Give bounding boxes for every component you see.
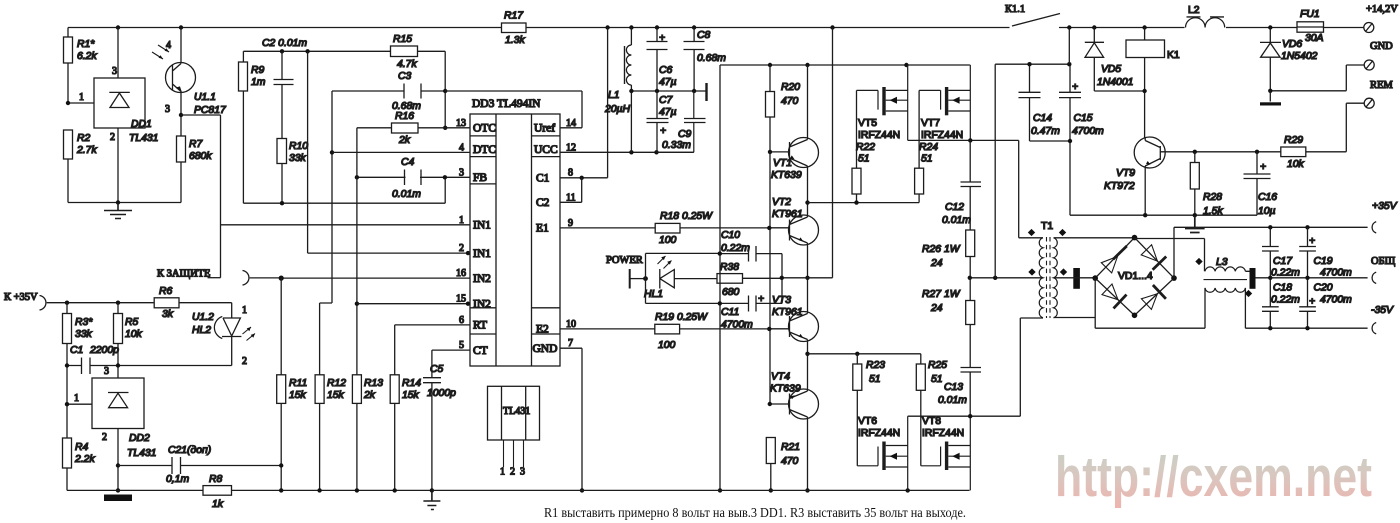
wire C1-out pin8 (560, 28, 608, 178)
svg-text:C10: C10 (721, 230, 740, 241)
terminal GND (1364, 60, 1374, 70)
svg-text:1N4001: 1N4001 (1097, 77, 1133, 88)
svg-text:E1: E1 (536, 223, 549, 235)
capacitor C16 (1244, 152, 1271, 215)
wire R16-C4 left vertical to IN2- and R13 (356, 128, 358, 375)
wire output node2 (808, 354, 921, 364)
IC TL431 package outline box (488, 386, 540, 440)
svg-text:U1.1: U1.1 (194, 92, 216, 103)
wire L3 top out to common rail (1245, 271, 1367, 278)
svg-text:C14: C14 (1033, 113, 1052, 124)
svg-text:C1: C1 (70, 345, 83, 356)
svg-text:L1: L1 (608, 90, 620, 101)
svg-text:+: + (1309, 297, 1315, 308)
svg-text:6.2k: 6.2k (77, 51, 97, 62)
svg-text:15k: 15k (327, 390, 345, 401)
svg-text:IN2: IN2 (473, 298, 491, 310)
svg-text:FU1: FU1 (1300, 9, 1320, 20)
svg-text:100: 100 (659, 235, 677, 246)
wire IN2+ pin16 (281, 277, 470, 279)
svg-text:R1 выставить примерно 8 вольт: R1 выставить примерно 8 вольт на выв.3 D… (544, 505, 966, 520)
svg-text:VT6: VT6 (858, 416, 877, 427)
svg-text:15k: 15k (402, 390, 420, 401)
svg-text:3: 3 (520, 467, 525, 478)
svg-text:+: + (660, 126, 666, 137)
capacitor C14 (1019, 64, 1071, 141)
svg-text:+: + (1309, 236, 1315, 247)
wire IN2- pin15 (357, 303, 470, 305)
svg-text:К1.1: К1.1 (1005, 4, 1025, 15)
diode VD5 1N4001 (1085, 28, 1145, 92)
svg-text:14: 14 (566, 118, 576, 129)
svg-text:10k: 10k (125, 329, 143, 340)
resistor R9 (242, 51, 244, 203)
wire Uref route (445, 91, 582, 128)
svg-text:R6: R6 (159, 286, 173, 297)
svg-text:C6: C6 (659, 65, 673, 76)
ground symbol R28 (1185, 215, 1205, 232)
svg-text:IRFZ44N: IRFZ44N (921, 130, 963, 141)
svg-text:R7: R7 (189, 139, 204, 150)
svg-text:UCC: UCC (534, 144, 558, 156)
svg-text:3: 3 (112, 66, 117, 77)
capacitor C2 (274, 51, 294, 138)
ground bar VD6 (1269, 91, 1271, 102)
svg-text:VT2: VT2 (772, 197, 791, 208)
svg-text:4700m: 4700m (1320, 268, 1352, 279)
wire DD2 pin1 (67, 403, 92, 405)
svg-text:DD1: DD1 (131, 119, 152, 130)
svg-text:VT3: VT3 (772, 295, 791, 306)
svg-text:10µ: 10µ (1258, 206, 1276, 217)
svg-text:E2: E2 (536, 324, 549, 336)
svg-text:C8: C8 (697, 30, 711, 41)
MOSFET VT8 IRFZ44N (921, 447, 941, 466)
svg-text:R12: R12 (327, 378, 346, 389)
resistor R12 (319, 403, 321, 490)
capacitor C12 (961, 140, 982, 230)
resistor R26 (966, 230, 975, 257)
svg-text:2: 2 (510, 467, 515, 478)
resistor R27 (969, 278, 971, 301)
svg-text:DD2: DD2 (129, 433, 150, 444)
svg-text:C19: C19 (1314, 256, 1333, 267)
svg-text:4700m: 4700m (1072, 126, 1104, 137)
svg-text:1: 1 (242, 305, 247, 316)
MOSFET VT7 IRFZ44N (919, 90, 941, 109)
svg-text:C18: C18 (1273, 283, 1292, 294)
svg-text:3: 3 (165, 104, 170, 115)
relay K1 (1126, 40, 1165, 58)
svg-text:GND: GND (533, 343, 558, 355)
wire bridge left to minus rail A (1095, 278, 1205, 328)
capacitor C6 (647, 28, 668, 92)
wire R9-R10 bottom rail to FB (243, 177, 445, 203)
svg-text:TL431: TL431 (503, 406, 530, 417)
svg-text:0,1m: 0,1m (166, 474, 189, 485)
svg-text:R4: R4 (75, 442, 89, 453)
svg-text:1k: 1k (212, 499, 224, 510)
svg-text:0.33m: 0.33m (662, 140, 691, 151)
svg-text:2: 2 (242, 356, 247, 367)
svg-text:24: 24 (930, 303, 943, 314)
LED arrows HL2 (243, 327, 256, 341)
svg-text:C21(доп): C21(доп) (168, 445, 211, 456)
resistor R21 (766, 438, 775, 464)
wire +35V rail (1174, 227, 1368, 278)
wire top rail mid (R17 to K1.1) (526, 27, 1010, 29)
svg-text:C1: C1 (536, 172, 550, 184)
svg-text:VT9: VT9 (1116, 168, 1135, 179)
LED U1.2 HL2 (222, 303, 241, 366)
svg-text:0.68m: 0.68m (697, 53, 726, 64)
resistor R22 (856, 90, 858, 168)
terminal +14,2V (1364, 23, 1374, 33)
capacitor C9 (657, 91, 706, 152)
resistor R18 + wire E1 pin9 (560, 227, 655, 229)
svg-text:R28: R28 (1203, 192, 1222, 203)
svg-text:R25: R25 (928, 360, 947, 371)
svg-text:C16: C16 (1258, 192, 1277, 203)
svg-text:DTC: DTC (473, 144, 496, 156)
svg-text:16: 16 (456, 268, 466, 279)
svg-text:R24: R24 (919, 142, 938, 153)
svg-text:Uref: Uref (534, 123, 555, 135)
svg-text:К ЗАЩИТЕ: К ЗАЩИТЕ (157, 269, 210, 280)
diode bridge VD1...4 (1095, 238, 1174, 316)
wire C3-left vertical to DTC and R12 (320, 91, 332, 375)
svg-text:R5: R5 (125, 317, 139, 328)
resistor R6 (154, 298, 179, 308)
capacitor C10 (720, 246, 782, 278)
svg-text:+: + (758, 294, 764, 305)
svg-text:К +35V: К +35V (4, 292, 38, 303)
svg-text:1.5k: 1.5k (1203, 206, 1223, 217)
svg-text:R2: R2 (77, 133, 91, 144)
resistor R11 (280, 278, 282, 490)
resistor R28 (1194, 152, 1196, 163)
photo arrows U1.1 (152, 45, 169, 59)
svg-text:20µH: 20µH (604, 104, 631, 115)
svg-text:0.22m: 0.22m (1271, 268, 1300, 279)
svg-text:TL431: TL431 (129, 133, 158, 144)
svg-text:C15: C15 (1074, 113, 1093, 124)
resistor R5 (117, 303, 119, 378)
wire +supply to center tap (995, 64, 1069, 278)
svg-text:FB: FB (473, 172, 487, 184)
svg-text:C12: C12 (945, 202, 964, 213)
svg-text:15: 15 (456, 294, 466, 305)
svg-text:R18 0.25W: R18 0.25W (660, 211, 713, 222)
svg-text:33k: 33k (75, 329, 93, 340)
wire DD1 ground rail (68, 202, 181, 204)
capacitor C15 (1059, 64, 1257, 215)
wire U1.1 pin3 to IN1 route (181, 115, 221, 278)
wire FB pin3 (357, 176, 470, 178)
svg-text:R14: R14 (402, 378, 421, 389)
svg-text:-35V: -35V (1371, 305, 1394, 316)
svg-text:KT972: KT972 (1104, 181, 1135, 192)
svg-text:KT639: KT639 (771, 170, 802, 181)
svg-text:1000p: 1000p (427, 388, 456, 399)
svg-text:KT961: KT961 (772, 209, 803, 220)
resistor R10 (277, 139, 287, 164)
resistor R16 (357, 127, 392, 129)
svg-text:680: 680 (722, 287, 740, 298)
svg-text:+: + (659, 33, 665, 44)
svg-text:47µ: 47µ (659, 77, 677, 88)
svg-text:5: 5 (459, 340, 464, 351)
svg-text:R13: R13 (364, 378, 383, 389)
svg-text:KT639: KT639 (770, 384, 801, 395)
MOSFET VT5 IRFZ44N (857, 90, 879, 109)
svg-text:2: 2 (110, 132, 115, 143)
svg-text:POWER: POWER (606, 255, 643, 266)
svg-text:R3*: R3* (75, 317, 93, 328)
ground bar DD2 (104, 495, 132, 502)
svg-text:C5: C5 (430, 364, 444, 375)
wire MOSFET drain rail bottom (908, 318, 1043, 416)
svg-text:R8: R8 (209, 474, 223, 485)
svg-text:4700m: 4700m (1320, 295, 1352, 306)
phase dots L3 (1195, 258, 1252, 297)
wire bridge top to L3 (1135, 239, 1205, 272)
svg-text:C2: C2 (536, 197, 550, 209)
capacitor C4 (405, 170, 422, 186)
svg-text:TL431: TL431 (127, 448, 156, 459)
svg-text:2200p: 2200p (89, 345, 119, 356)
svg-text:1: 1 (74, 393, 79, 404)
svg-text:4: 4 (459, 142, 464, 153)
svg-text:U1.2: U1.2 (192, 312, 214, 323)
svg-text:IN1: IN1 (473, 248, 491, 260)
svg-text:HL2: HL2 (192, 325, 211, 336)
capacitor C11 (720, 278, 782, 312)
transistor VT9 KT972 (1134, 137, 1165, 168)
wire upper ground rail (720, 64, 969, 66)
IC DD1 TL431 box (94, 78, 145, 128)
svg-text:8: 8 (568, 168, 573, 179)
svg-text:OTC: OTC (473, 123, 496, 135)
svg-text:0.01m: 0.01m (938, 395, 967, 406)
node R1-R2 junction pin1 wire (68, 102, 94, 104)
wire top rail left (U1.1 collector to R17) (68, 27, 502, 29)
svg-text:VT4: VT4 (771, 372, 790, 383)
svg-text:R10: R10 (289, 141, 308, 152)
transistor VT1 KT639 (789, 138, 819, 168)
resistor R3* (66, 303, 68, 438)
svg-text:51: 51 (858, 154, 870, 165)
diode VD6 1N5402 (1260, 28, 1281, 91)
svg-text:2.7k: 2.7k (76, 145, 97, 156)
svg-text:R1*: R1* (77, 39, 95, 50)
node U1.1 pin3 (179, 113, 183, 117)
MOSFET VT6 IRFZ44N (857, 447, 878, 466)
wire secondary top to bridge (1054, 237, 1135, 239)
capacitor C7 (647, 91, 669, 152)
svg-text:IRFZ44N: IRFZ44N (858, 428, 900, 439)
capacitor C17 (1262, 227, 1279, 277)
svg-text:C11: C11 (721, 307, 739, 318)
resistor R20 (769, 65, 771, 152)
svg-text:R38: R38 (720, 262, 739, 273)
svg-text:0.22m: 0.22m (1271, 295, 1300, 306)
wire secondary bottom (1054, 317, 1096, 319)
svg-text:R15: R15 (393, 34, 412, 45)
svg-text:13: 13 (456, 118, 466, 129)
svg-text:1: 1 (79, 92, 84, 103)
resistor R13 (356, 403, 358, 490)
capacitor C20 (1299, 278, 1316, 328)
wire output node1 (782, 28, 833, 278)
svg-text:VT8: VT8 (922, 416, 941, 427)
svg-text:51: 51 (931, 374, 943, 385)
capacitor C3 (332, 84, 445, 99)
capacitor C5 + wire CT pin5 (423, 350, 470, 490)
svg-text:0.01m: 0.01m (392, 189, 421, 200)
wire C2-out pin11 tie (560, 178, 582, 203)
svg-text:R17: R17 (504, 11, 524, 22)
resistor R15 (391, 46, 418, 57)
svg-text:4700m: 4700m (721, 320, 753, 331)
svg-text:0.47m: 0.47m (1031, 126, 1060, 137)
resistor R25 (916, 364, 925, 390)
svg-text:3: 3 (104, 366, 109, 377)
wire L3 bottom out to -35V rail (1245, 288, 1367, 328)
wire HL1/C10/C11 left feed (ground column) (719, 65, 721, 490)
svg-text:2k: 2k (398, 135, 411, 146)
svg-text:C13: C13 (944, 382, 963, 393)
svg-text:http://cxem.net: http://cxem.net (1055, 445, 1372, 509)
svg-text:2: 2 (459, 243, 464, 254)
opto-transistor U1.1 PC817 (166, 63, 196, 93)
resistor R38 (717, 274, 743, 284)
svg-text:VD1...4: VD1...4 (1118, 271, 1153, 282)
wire bottom rail right part (432, 489, 970, 491)
resistor R2 (64, 130, 73, 159)
resistor R14 + wire RT pin6 (395, 325, 470, 491)
svg-text:1.3k: 1.3k (505, 35, 525, 46)
LED HL1 (646, 253, 720, 303)
wire IN1+ pin1 (221, 224, 471, 226)
svg-text:C3: C3 (398, 71, 412, 82)
resistor R1* (67, 28, 69, 203)
ground symbol main rail (423, 490, 440, 509)
svg-text:GND: GND (1370, 41, 1393, 52)
svg-text:KT961: KT961 (772, 307, 803, 318)
wire top rail right of switch (1059, 27, 1185, 29)
resistor R8 (67, 489, 203, 491)
wire DTC pin4 (332, 151, 470, 153)
wire IN1- pin2 (308, 51, 470, 253)
wire VT1/VT2 base column (769, 152, 771, 404)
svg-text:VD6: VD6 (1282, 39, 1302, 50)
svg-text:470: 470 (781, 96, 799, 107)
svg-text:4.7k: 4.7k (397, 59, 417, 70)
wire secondary ground rail (1143, 213, 1197, 217)
wire mid ground rail + chassis tick (631, 90, 706, 92)
shield bar T1 secondary (1073, 268, 1080, 289)
svg-text:51: 51 (869, 374, 881, 385)
svg-text:IRFZ44N: IRFZ44N (858, 130, 900, 141)
phase dots T1 (1028, 229, 1067, 276)
svg-text:R27 1W: R27 1W (922, 289, 961, 300)
svg-text:R22: R22 (856, 142, 875, 153)
svg-text:R16: R16 (395, 111, 414, 122)
resistor R17 (502, 23, 527, 33)
capacitor C18 (1262, 278, 1279, 328)
svg-text:R11: R11 (289, 378, 307, 389)
wire MOSFET source rail top (908, 140, 1043, 237)
svg-text:C7: C7 (659, 95, 674, 106)
svg-text:3k: 3k (162, 309, 174, 320)
svg-text:T1: T1 (1041, 221, 1053, 232)
svg-text:IN2: IN2 (473, 273, 491, 285)
node top rail dots left (116, 25, 835, 29)
wire VT9 base / R29 node (1160, 151, 1281, 153)
terminal REM (1364, 98, 1374, 108)
wire DD2 pin2 down (117, 429, 119, 491)
svg-text:4: 4 (166, 40, 171, 51)
svg-text:0.01m: 0.01m (942, 215, 971, 226)
resistor R7 (180, 115, 182, 203)
svg-text:K1: K1 (1167, 50, 1180, 61)
svg-text:DD3 TL494IN: DD3 TL494IN (472, 98, 541, 110)
svg-text:10k: 10k (1287, 159, 1305, 170)
svg-text:C17: C17 (1273, 256, 1293, 267)
svg-text:C4: C4 (401, 157, 415, 168)
svg-text:+35V: +35V (1372, 201, 1398, 212)
svg-text:+14,2V: +14,2V (1366, 4, 1398, 15)
svg-text:+: + (1072, 82, 1078, 93)
TL431 package legs (504, 440, 524, 467)
wire secondary center to bridge left (1054, 277, 1096, 279)
svg-text:R21: R21 (781, 442, 800, 453)
svg-text:30A: 30A (1305, 33, 1324, 44)
svg-text:2: 2 (102, 432, 107, 443)
LED arrows HL1 (658, 256, 672, 269)
svg-text:C20: C20 (1314, 283, 1333, 294)
wire UCC pin12 rail (560, 151, 694, 153)
svg-text:R23: R23 (866, 360, 885, 371)
svg-text:L2: L2 (1188, 5, 1200, 16)
svg-text:1N5402: 1N5402 (1281, 51, 1318, 62)
fuse FU1 30A (1297, 22, 1324, 32)
svg-text:1: 1 (500, 467, 505, 478)
svg-text:33k: 33k (289, 153, 307, 164)
svg-text:2.2k: 2.2k (74, 454, 95, 465)
resistor R24 (918, 90, 920, 168)
wire C2 node rail (243, 50, 390, 52)
svg-text:3: 3 (459, 167, 464, 178)
svg-text:R20: R20 (781, 82, 800, 93)
capacitor C13 (961, 325, 982, 417)
wire GND pin7 (560, 348, 582, 490)
svg-text:0.22m: 0.22m (721, 243, 750, 254)
svg-text:VD5: VD5 (1101, 64, 1121, 75)
svg-text:IN1: IN1 (473, 220, 491, 232)
svg-text:ОБЩ: ОБЩ (1371, 256, 1396, 267)
svg-text:470: 470 (781, 456, 799, 467)
svg-text:24: 24 (930, 258, 943, 269)
svg-text:VT1: VT1 (773, 158, 792, 169)
svg-text:51: 51 (921, 154, 933, 165)
svg-text:RT: RT (473, 320, 487, 332)
svg-text:+: + (1260, 162, 1266, 173)
svg-text:47µ: 47µ (659, 107, 677, 118)
svg-text:VT5: VT5 (858, 118, 877, 129)
svg-text:CT: CT (473, 345, 488, 357)
